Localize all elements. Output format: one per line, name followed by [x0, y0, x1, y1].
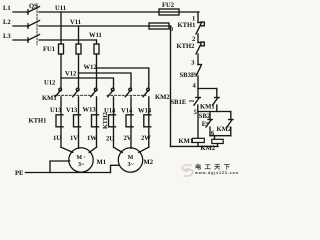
wire PE rail — [26, 172, 111, 174]
svg-text:KM1: KM1 — [42, 95, 57, 102]
watermark logo — [182, 163, 240, 176]
wire KM2 coil feed — [214, 136, 216, 140]
wire node 4 — [197, 76, 199, 89]
wire L2 input — [13, 25, 28, 27]
thermal relay KTH2 heater c — [144, 115, 151, 127]
svg-text:3~: 3~ — [127, 162, 134, 168]
wire W13 — [96, 97, 98, 147]
wire W-phase drop — [96, 40, 98, 44]
thermal relay KTH1 heater c — [92, 115, 99, 127]
wire U14 — [113, 97, 115, 147]
contactor KM1 main contact 3 — [91, 88, 97, 97]
svg-text:V11: V11 — [70, 19, 81, 26]
svg-text:W12: W12 — [84, 64, 98, 71]
motor M2 — [118, 148, 142, 172]
contactor KM1 linkage — [54, 94, 93, 96]
svg-text:KM1: KM1 — [179, 138, 194, 145]
wire U13 — [60, 97, 62, 147]
wire control return rail node 0 — [170, 26, 172, 146]
svg-text:L3: L3 — [3, 33, 11, 40]
contactor KM1 main contact 1 — [55, 88, 61, 97]
wire V12 jumper to KM2 — [79, 73, 132, 88]
wire V13 — [78, 97, 80, 148]
contactor KM2 main contact 3 — [143, 88, 149, 97]
wire KM1 coil out — [197, 143, 199, 147]
thermal relay KTH1 heater a — [56, 115, 63, 127]
coil KM2 — [212, 139, 223, 143]
wire V-phase drop — [78, 26, 80, 44]
svg-text:PE: PE — [15, 170, 24, 177]
wire rejoin bar node 5 — [198, 111, 231, 113]
svg-text:V14: V14 — [121, 108, 133, 115]
svg-text:KTH2: KTH2 — [177, 43, 196, 50]
wire L1 input — [13, 11, 28, 13]
wire control bottom rail — [171, 145, 219, 147]
svg-text:M: M — [128, 155, 134, 161]
svg-text:U13: U13 — [50, 107, 62, 114]
wire PE to M2 frame — [111, 165, 120, 172]
wire U-phase drop — [60, 12, 62, 44]
svg-text:1U: 1U — [53, 135, 61, 142]
pushbutton SB1 (NO start) — [190, 89, 201, 112]
wire U12 vertical — [60, 54, 62, 88]
switch QS linkage — [36, 4, 38, 45]
svg-text:KM2: KM2 — [155, 94, 170, 101]
svg-text:U11: U11 — [55, 5, 66, 12]
switch QS pole 3 — [28, 35, 40, 43]
wire PE to M1 frame — [50, 161, 70, 173]
svg-text:电工天下: 电工天下 — [195, 163, 233, 171]
wire 2W — [139, 147, 149, 152]
wire V14 — [130, 97, 132, 148]
contact KM2 auxiliary (NO holding) — [227, 112, 233, 136]
svg-text:M ·: M · — [76, 155, 85, 161]
fuse FU1 element a — [59, 44, 64, 54]
svg-text:2V: 2V — [124, 135, 132, 142]
fuse FU2 lower — [149, 23, 169, 29]
wire bus W11 — [39, 39, 97, 41]
thermal contact KTH1 (NC) — [196, 22, 204, 34]
thermal relay KTH2 heater a — [109, 115, 116, 127]
coil KM1 — [192, 138, 204, 142]
thermal relay KTH1 heater b — [74, 115, 81, 127]
contact KM1 auxiliary (NO holding) — [213, 89, 220, 112]
wire L3 input — [13, 39, 28, 41]
svg-text:L1: L1 — [3, 5, 11, 12]
svg-text:KTH1: KTH1 — [178, 22, 196, 29]
svg-text:2U: 2U — [106, 136, 114, 143]
wire W12 jumper to KM2 — [97, 68, 149, 88]
contactor KM2 main contact 1 — [108, 88, 114, 97]
wire KM1 coil feed — [197, 112, 199, 139]
wire V12 vertical — [78, 54, 80, 88]
svg-text:SB1E: SB1E — [171, 99, 187, 106]
wire node 2 — [197, 34, 199, 43]
svg-text:KM1: KM1 — [200, 104, 215, 111]
wire 1U — [61, 147, 73, 152]
svg-text:E: E — [202, 121, 207, 128]
svg-text:1V: 1V — [70, 135, 78, 142]
svg-text:SB2: SB2 — [199, 113, 211, 120]
switch QS pole 1 — [28, 7, 40, 15]
wire KM2 coil out — [217, 144, 219, 147]
svg-text:SB3E: SB3E — [180, 72, 196, 79]
fuse FU1 element b — [76, 44, 81, 54]
contactor KM2 main contact 2 — [125, 88, 131, 97]
contactor KM1 main contact 2 — [73, 88, 79, 97]
pushbutton SB3 (NC stop) — [194, 65, 201, 77]
wire W14 — [148, 97, 150, 147]
wire split bar node 4 — [198, 88, 217, 90]
wire bus U11 — [39, 11, 199, 13]
svg-text:W11: W11 — [89, 32, 102, 39]
svg-text:2W: 2W — [141, 135, 151, 142]
svg-text:FU1: FU1 — [43, 46, 55, 53]
svg-text:QS: QS — [29, 3, 38, 10]
svg-text:FU2: FU2 — [162, 2, 175, 9]
switch QS pole 2 — [28, 21, 40, 29]
svg-text:M2: M2 — [144, 159, 154, 166]
fuse FU1 element c — [94, 44, 99, 54]
wire node 3 — [197, 54, 199, 65]
svg-text:1W: 1W — [87, 135, 97, 142]
contactor KM2 linkage — [107, 94, 146, 96]
wire U12 jumper to KM2 — [61, 78, 114, 88]
svg-text:W14: W14 — [138, 108, 152, 115]
wire control feed — [197, 12, 199, 23]
svg-text:V12: V12 — [65, 71, 77, 78]
fuse FU2 upper — [159, 9, 179, 15]
svg-text:KTH2: KTH2 — [102, 112, 109, 129]
wire 1W — [89, 147, 96, 152]
motor M1 — [69, 148, 93, 172]
svg-text:www.dgjs123.com: www.dgjs123.com — [194, 171, 238, 175]
svg-text:KTH1: KTH1 — [29, 118, 47, 125]
thermal contact KTH2 (NC) — [196, 42, 204, 54]
thermal relay KTH2 heater b — [126, 115, 133, 127]
svg-text:M1: M1 — [97, 159, 107, 166]
svg-text:V13: V13 — [66, 107, 78, 114]
svg-text:KM2: KM2 — [201, 145, 216, 152]
svg-text:U12: U12 — [44, 80, 56, 87]
wire rejoin bar node 6 — [210, 135, 231, 137]
svg-text:L2: L2 — [3, 19, 11, 26]
wire W12 vertical — [96, 54, 98, 88]
svg-text:KM2: KM2 — [217, 126, 232, 133]
svg-text:W13: W13 — [83, 107, 97, 114]
wire bus V11 — [39, 25, 171, 27]
pushbutton SB2 (NO start M2) — [206, 112, 212, 136]
svg-text:3~: 3~ — [78, 162, 85, 168]
wire 2U — [114, 147, 123, 152]
